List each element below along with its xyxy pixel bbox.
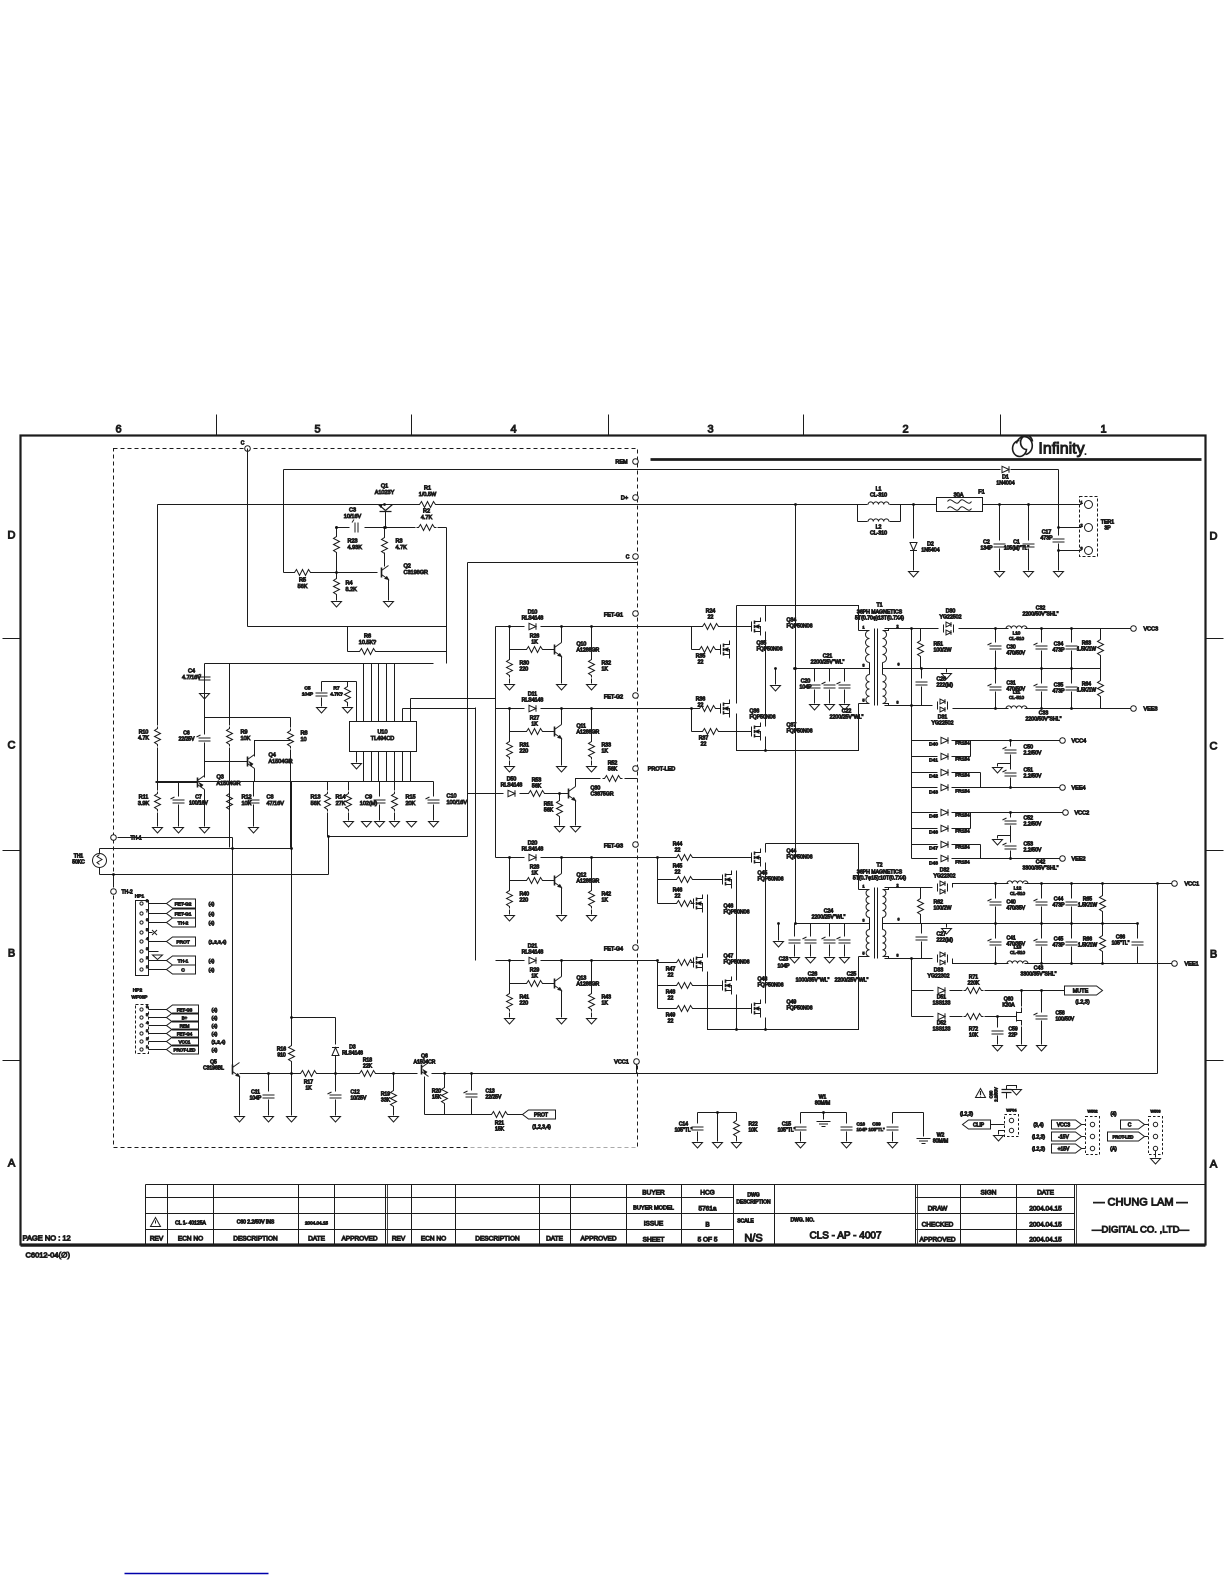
svg-text:1SS133: 1SS133 bbox=[933, 1027, 951, 1033]
capacitor C1 bbox=[1028, 505, 1030, 541]
wire y836 row bbox=[328, 836, 468, 838]
wire Q4 links bbox=[205, 761, 248, 763]
svg-text:RLS4148: RLS4148 bbox=[522, 698, 544, 704]
svg-text:VCC4: VCC4 bbox=[1072, 739, 1087, 745]
svg-text:REV: REV bbox=[150, 1236, 164, 1243]
svg-text:U10: U10 bbox=[377, 730, 387, 736]
wire Q12 emitter bbox=[561, 858, 563, 874]
svg-text:APPROVED: APPROVED bbox=[580, 1236, 616, 1243]
svg-text:3: 3 bbox=[146, 1029, 148, 1033]
svg-text:TH-1: TH-1 bbox=[178, 959, 189, 965]
svg-text:C21: C21 bbox=[823, 654, 833, 660]
fuse F1 bbox=[937, 498, 983, 512]
svg-text:A1288GR: A1288GR bbox=[577, 648, 600, 654]
svg-text:10K: 10K bbox=[969, 1033, 979, 1039]
svg-text:A1504GR: A1504GR bbox=[269, 759, 293, 765]
svg-text:B: B bbox=[1210, 949, 1217, 961]
wire Q1 box left bbox=[283, 470, 285, 573]
wire column R3 bbox=[384, 528, 386, 537]
capacitor C11 bbox=[268, 1074, 270, 1092]
svg-text:C22: C22 bbox=[842, 709, 852, 715]
svg-text:TL494CD: TL494CD bbox=[371, 736, 395, 742]
wire R4 column bbox=[336, 573, 338, 579]
wire driver feed B bbox=[475, 708, 477, 961]
svg-text:910: 910 bbox=[277, 1053, 286, 1059]
svg-text:4.7K: 4.7K bbox=[421, 515, 433, 521]
svg-text:FET-G4: FET-G4 bbox=[604, 947, 623, 953]
wire D45 feed bbox=[911, 788, 913, 859]
wire C-node row bbox=[468, 562, 638, 564]
arrow PROT-LED out bbox=[1108, 1132, 1145, 1141]
wire lower bus y781 bbox=[156, 781, 434, 783]
svg-text:4.7K?: 4.7K? bbox=[330, 691, 343, 697]
svg-text:4.7K: 4.7K bbox=[396, 545, 408, 551]
diode D41 bbox=[912, 756, 938, 758]
node REM bbox=[633, 459, 639, 465]
resistor R17 bbox=[299, 1071, 319, 1077]
resistor R43 bbox=[591, 961, 593, 992]
svg-text:134P: 134P bbox=[980, 546, 993, 552]
svg-text:R44: R44 bbox=[673, 842, 683, 848]
wire mute feeds bbox=[911, 959, 913, 1017]
ground under C5 bbox=[317, 708, 327, 714]
svg-text:TER1: TER1 bbox=[1101, 520, 1114, 526]
wire T2 mid right bbox=[885, 923, 1138, 925]
wire TH-1 row bbox=[118, 837, 233, 839]
capacitor C9 bbox=[379, 782, 381, 797]
svg-text:R29: R29 bbox=[530, 968, 540, 974]
pin HP1-5 no-connect bbox=[140, 931, 143, 934]
svg-text:1K: 1K bbox=[602, 898, 609, 904]
wire U10 to drivers bbox=[403, 699, 496, 709]
svg-text:56K: 56K bbox=[532, 784, 542, 790]
svg-text:-15V: -15V bbox=[1058, 1135, 1069, 1141]
svg-text:(L2,3): (L2,3) bbox=[1032, 1147, 1045, 1153]
ground VCC2 mid bbox=[998, 835, 1011, 837]
mute arrow bbox=[1065, 986, 1103, 995]
pin HP2 PROT-LED bbox=[140, 1048, 143, 1051]
svg-text:PROT-LED: PROT-LED bbox=[1113, 1135, 1134, 1140]
resistor R26 bbox=[510, 649, 525, 651]
mosfet Q47 bbox=[691, 954, 703, 972]
wire Q13 emitter bbox=[561, 961, 563, 977]
wire C4 lead bbox=[204, 664, 206, 673]
svg-text:VEE4: VEE4 bbox=[1072, 786, 1086, 792]
svg-text:C26: C26 bbox=[808, 972, 818, 978]
resistor R51 bbox=[559, 794, 561, 799]
svg-text:D2: D2 bbox=[927, 542, 934, 548]
svg-text:YG22502: YG22502 bbox=[940, 615, 962, 621]
diode D43 bbox=[912, 787, 938, 789]
svg-text:3300/35V"SHL": 3300/35V"SHL" bbox=[1021, 972, 1057, 978]
svg-text:5: 5 bbox=[314, 424, 320, 436]
capacitor C16 bbox=[846, 1113, 848, 1124]
wire bank2 inner verticals bbox=[736, 871, 738, 981]
capacitor C23 bbox=[794, 924, 796, 937]
svg-text:15K: 15K bbox=[432, 1095, 442, 1101]
wire x157 upper bbox=[157, 505, 159, 726]
svg-text:Q34: Q34 bbox=[787, 618, 797, 624]
capacitor C34 bbox=[1071, 629, 1073, 643]
svg-text:VEE1: VEE1 bbox=[1185, 962, 1199, 968]
resistor R8 bbox=[288, 729, 294, 749]
svg-text:RLS4148: RLS4148 bbox=[522, 950, 544, 956]
svg-text:8: 8 bbox=[897, 954, 899, 958]
svg-text:2200/25V"WL": 2200/25V"WL" bbox=[811, 660, 845, 666]
svg-text:27K: 27K bbox=[336, 801, 346, 807]
svg-text:C60 2.2/50V INS: C60 2.2/50V INS bbox=[237, 1220, 275, 1226]
node VCC1 mid bbox=[634, 1059, 640, 1065]
capacitor C10 bbox=[433, 782, 435, 797]
wire R7 column bbox=[347, 682, 349, 686]
capacitor C58 bbox=[1041, 991, 1043, 1013]
svg-text:D30: D30 bbox=[946, 609, 956, 615]
resistor R51B bbox=[920, 629, 922, 639]
diode D11 bbox=[529, 705, 536, 711]
svg-text:CL-510: CL-510 bbox=[1010, 950, 1026, 955]
wire R6 row bbox=[348, 651, 358, 653]
junctions VCC1 rails bbox=[994, 882, 997, 885]
transistor Q4 bbox=[248, 755, 255, 769]
svg-text:R47: R47 bbox=[666, 967, 676, 973]
resistor R48 bbox=[658, 985, 677, 987]
svg-text:FQP50N06: FQP50N06 bbox=[787, 729, 813, 735]
svg-text:D41: D41 bbox=[929, 758, 938, 764]
wire rail to fuse bbox=[901, 504, 937, 506]
pin HP1 C bbox=[140, 968, 143, 971]
resistor R31 bbox=[509, 709, 511, 740]
wire G1 to R24 bbox=[638, 626, 703, 628]
svg-text:(4): (4) bbox=[209, 921, 215, 927]
svg-text:222(M): 222(M) bbox=[937, 683, 954, 689]
svg-text:22P: 22P bbox=[1009, 1033, 1019, 1039]
svg-text:T2: T2 bbox=[876, 863, 882, 869]
svg-text:R1: R1 bbox=[424, 486, 431, 492]
wire Q10 emitter bbox=[561, 627, 563, 643]
diode D20 bbox=[529, 854, 536, 860]
wire x467 vertical bbox=[467, 563, 469, 772]
resistor R1 bbox=[418, 502, 438, 508]
svg-text:VCC3: VCC3 bbox=[1057, 1123, 1071, 1129]
svg-text:6: 6 bbox=[115, 424, 121, 436]
ground mid gnds bbox=[362, 822, 372, 828]
svg-text:6: 6 bbox=[146, 918, 148, 922]
svg-text:105(M)"TL": 105(M)"TL" bbox=[1004, 546, 1029, 552]
wire Q11 emitter bbox=[561, 709, 563, 725]
svg-text:D21: D21 bbox=[528, 944, 538, 950]
svg-text:R43: R43 bbox=[602, 995, 612, 1001]
svg-text:R35: R35 bbox=[696, 654, 706, 660]
capacitor C52 bbox=[1010, 813, 1012, 818]
resistor R29 bbox=[510, 983, 525, 985]
svg-text:3: 3 bbox=[863, 919, 865, 923]
wire TH1 bottom bbox=[99, 868, 101, 875]
wire Q60 drain bbox=[1021, 991, 1023, 1007]
node D+ bbox=[633, 495, 639, 501]
wire TER1 pin3 lead bbox=[1059, 550, 1082, 552]
wire R2 C3 row bbox=[337, 527, 350, 529]
svg-text:FR154: FR154 bbox=[955, 757, 970, 763]
capacitor C13 bbox=[471, 1074, 473, 1091]
svg-text:8: 8 bbox=[146, 899, 148, 903]
svg-text:2: 2 bbox=[897, 625, 899, 629]
wire rail after fuse bbox=[983, 504, 1082, 506]
svg-text:Q44: Q44 bbox=[787, 849, 797, 855]
svg-text:MUTE: MUTE bbox=[1073, 989, 1089, 995]
pin HP2 B+ bbox=[140, 1016, 143, 1019]
resistor R4 bbox=[334, 577, 340, 597]
wire VEE1 rail bbox=[953, 959, 1172, 964]
junctions row bbox=[508, 707, 511, 710]
svg-text:2: 2 bbox=[146, 1037, 148, 1041]
svg-text:1: 1 bbox=[146, 1045, 148, 1049]
resistor R36 bbox=[698, 706, 718, 712]
svg-text:Q13: Q13 bbox=[577, 976, 587, 982]
ground T1 mid bbox=[946, 669, 948, 673]
svg-text:104P: 104P bbox=[302, 691, 313, 697]
svg-text:2: 2 bbox=[897, 884, 899, 888]
svg-text:1: 1 bbox=[863, 885, 865, 889]
svg-text:3: 3 bbox=[863, 664, 865, 668]
wire bank1 source rail bbox=[737, 704, 859, 751]
svg-text:4.7/16V: 4.7/16V bbox=[182, 675, 201, 681]
svg-text:C3198GR: C3198GR bbox=[404, 570, 428, 576]
svg-text:2004.04.15: 2004.04.15 bbox=[1029, 1206, 1062, 1213]
junctions row bbox=[508, 856, 511, 859]
svg-text:D: D bbox=[1210, 531, 1218, 543]
svg-text:22/25V: 22/25V bbox=[179, 737, 196, 743]
capacitor C53 bbox=[1010, 836, 1012, 843]
svg-text:33K: 33K bbox=[381, 1098, 391, 1104]
svg-text:R33: R33 bbox=[602, 743, 612, 749]
wire G2 to R36 bbox=[638, 708, 700, 710]
wire bank2 source rail bbox=[708, 957, 859, 1030]
mosfet Q48 bbox=[720, 977, 732, 995]
svg-text:3300/35V"SHL": 3300/35V"SHL" bbox=[1023, 866, 1059, 872]
svg-text:Q10: Q10 bbox=[577, 642, 587, 648]
svg-text:1K: 1K bbox=[531, 722, 538, 728]
svg-text:10K: 10K bbox=[242, 801, 252, 807]
resistor R33 bbox=[591, 709, 593, 740]
svg-text:DWG: DWG bbox=[747, 1193, 759, 1199]
svg-text:Q4: Q4 bbox=[269, 753, 276, 759]
svg-text:473P: 473P bbox=[1052, 903, 1065, 909]
wire driver feed A bbox=[495, 627, 497, 858]
svg-text:A: A bbox=[1210, 1159, 1218, 1171]
svg-text:PROT-LED: PROT-LED bbox=[174, 1048, 196, 1053]
svg-text:2200/25V"WL": 2200/25V"WL" bbox=[835, 978, 869, 984]
terminal VCC4 bbox=[1060, 738, 1066, 744]
mosfet Q44 bbox=[749, 849, 761, 867]
svg-text:R30: R30 bbox=[520, 661, 530, 667]
wire D40 feed bbox=[911, 629, 913, 788]
capacitor C44 bbox=[1071, 884, 1073, 899]
resistor R7 bbox=[345, 685, 351, 705]
svg-text:C39: C39 bbox=[872, 1122, 881, 1127]
svg-text:2004.04.15: 2004.04.15 bbox=[1029, 1237, 1062, 1244]
svg-text:50KC: 50KC bbox=[72, 860, 85, 866]
svg-text:22: 22 bbox=[675, 894, 681, 900]
arrow PROT bbox=[523, 1110, 556, 1119]
dual diode D31 bbox=[940, 699, 945, 704]
svg-text:D: D bbox=[8, 530, 16, 542]
wire Q5 emitter gnd bbox=[239, 1077, 241, 1116]
svg-text:5: 5 bbox=[146, 1013, 148, 1017]
svg-text:CL-510: CL-510 bbox=[1010, 891, 1026, 896]
svg-text:FET-G4: FET-G4 bbox=[177, 1032, 193, 1037]
svg-text:1SS133: 1SS133 bbox=[933, 1001, 951, 1007]
blue underline mark bbox=[125, 1573, 269, 1575]
svg-text:WF08P: WF08P bbox=[132, 995, 148, 1001]
wire Q3 box top bbox=[205, 717, 291, 719]
svg-text:8.2K: 8.2K bbox=[346, 587, 358, 593]
thermistor TH1 bbox=[93, 854, 107, 868]
pin HP1 FET-G2 bbox=[140, 902, 143, 905]
terminal VEE3 bbox=[1131, 706, 1137, 712]
capacitor C5 bbox=[316, 693, 328, 696]
svg-text:(A): (A) bbox=[1110, 1147, 1117, 1153]
svg-text:WF04: WF04 bbox=[1006, 1109, 1016, 1113]
svg-text:100/16V: 100/16V bbox=[447, 800, 468, 806]
capacitor C12 bbox=[335, 1074, 337, 1092]
svg-text:R36: R36 bbox=[696, 697, 706, 703]
wire T1 mid right bbox=[885, 668, 1101, 670]
capacitor C24 bbox=[810, 924, 812, 937]
svg-text:B: B bbox=[8, 948, 15, 960]
resistor R49 bbox=[658, 1008, 677, 1010]
svg-text:D33: D33 bbox=[934, 968, 944, 974]
svg-text:(4): (4) bbox=[212, 1024, 218, 1030]
svg-text:TH-2: TH-2 bbox=[122, 890, 133, 896]
svg-text:22/25V: 22/25V bbox=[486, 1095, 503, 1101]
diode D2 bbox=[910, 543, 917, 551]
svg-text:2004.04.15: 2004.04.15 bbox=[305, 1221, 328, 1226]
svg-text:4: 4 bbox=[510, 424, 516, 436]
resistor R16 bbox=[289, 1044, 295, 1064]
svg-text:100/16V: 100/16V bbox=[189, 801, 208, 807]
svg-text:A1288GR: A1288GR bbox=[577, 982, 600, 988]
svg-text:T1: T1 bbox=[876, 603, 882, 609]
svg-text:FET-G1: FET-G1 bbox=[175, 912, 192, 918]
svg-text:PROT: PROT bbox=[534, 1113, 548, 1119]
svg-text:R32: R32 bbox=[602, 661, 612, 667]
transistor Q10 bbox=[555, 643, 562, 657]
wire REM rail bbox=[284, 469, 1001, 471]
svg-text:1000/35V"WL": 1000/35V"WL" bbox=[796, 978, 830, 984]
svg-text:6: 6 bbox=[146, 1005, 148, 1009]
transistor Q30 bbox=[569, 787, 576, 801]
svg-text:FQP50N06: FQP50N06 bbox=[787, 624, 813, 630]
svg-text:220K: 220K bbox=[968, 981, 980, 987]
svg-text:5: 5 bbox=[146, 928, 148, 932]
svg-text:4: 4 bbox=[146, 1021, 148, 1025]
transistor Q11 bbox=[555, 725, 562, 739]
svg-text:(1,2,3,4): (1,2,3,4) bbox=[532, 1125, 551, 1131]
resistor R65 bbox=[1102, 884, 1104, 894]
svg-text:C2: C2 bbox=[983, 540, 990, 546]
capacitor C43b bbox=[1041, 924, 1043, 939]
svg-text:R8: R8 bbox=[301, 731, 308, 737]
svg-text:(L2,3): (L2,3) bbox=[1075, 1000, 1090, 1006]
arrow CLIP bbox=[963, 1120, 991, 1129]
svg-text:VCC1: VCC1 bbox=[614, 1060, 629, 1066]
svg-text:C4: C4 bbox=[188, 669, 195, 675]
svg-text:FQP50N06: FQP50N06 bbox=[758, 877, 784, 883]
svg-text:D45: D45 bbox=[929, 814, 938, 820]
ground VCC4 mid bbox=[998, 763, 1011, 765]
svg-text:R23: R23 bbox=[348, 539, 358, 545]
pin HP2 REM bbox=[140, 1024, 143, 1027]
svg-text:D31: D31 bbox=[938, 715, 948, 721]
svg-text:FQP50N06: FQP50N06 bbox=[750, 715, 776, 721]
diode D10 bbox=[529, 623, 536, 629]
capacitor C33b bbox=[1041, 669, 1043, 684]
wire Q30 collector bbox=[576, 779, 601, 787]
svg-text:YG22302: YG22302 bbox=[934, 874, 956, 880]
svg-text:2200/50V"SHL": 2200/50V"SHL" bbox=[1026, 717, 1062, 723]
svg-text:104P: 104P bbox=[250, 1096, 262, 1102]
svg-text:R15: R15 bbox=[406, 795, 416, 801]
svg-text:FET-G1: FET-G1 bbox=[604, 613, 623, 619]
resistor R28 bbox=[510, 880, 525, 882]
diode D52 bbox=[912, 1016, 934, 1018]
svg-text:4.7K: 4.7K bbox=[138, 736, 149, 742]
wire B+ rail bbox=[158, 504, 418, 506]
svg-text:8: 8 bbox=[897, 701, 899, 705]
pin HP2 FET-G3 bbox=[140, 1008, 143, 1011]
junction dots input bbox=[912, 503, 915, 506]
transistor Q12 bbox=[555, 874, 562, 888]
svg-text:22: 22 bbox=[668, 996, 674, 1002]
connector W503 bbox=[1149, 1117, 1163, 1155]
svg-text:1: 1 bbox=[1100, 424, 1106, 436]
svg-text:C50: C50 bbox=[1024, 745, 1034, 751]
resistor R14 bbox=[348, 782, 350, 791]
svg-text:D42: D42 bbox=[929, 774, 938, 780]
svg-text:D20: D20 bbox=[528, 841, 538, 847]
resistor R42 bbox=[591, 858, 593, 889]
resistor R12 bbox=[227, 792, 233, 812]
wire x446 vertical bbox=[446, 528, 448, 664]
wire VCC1 bus drop bbox=[1157, 884, 1159, 1074]
wire C14 mid gnd bbox=[717, 1113, 719, 1142]
connector TER1 bbox=[1080, 497, 1098, 557]
wire U10 bottom pins bbox=[364, 752, 411, 782]
svg-text:1.5K/1W: 1.5K/1W bbox=[1078, 903, 1097, 909]
svg-text:PAGE NO : 12: PAGE NO : 12 bbox=[23, 1234, 71, 1243]
title bottom thick border bbox=[21, 1244, 1206, 1247]
wire Q60 source bbox=[1021, 1027, 1023, 1045]
svg-text:+15V: +15V bbox=[1058, 1147, 1070, 1153]
svg-text:HP2: HP2 bbox=[133, 988, 143, 994]
node TH-1 bbox=[111, 835, 117, 841]
svg-text:2: 2 bbox=[902, 424, 908, 436]
svg-text:VCC2: VCC2 bbox=[1075, 811, 1090, 817]
wire R5 row bbox=[284, 572, 293, 574]
transistor Q6 bbox=[422, 1063, 429, 1077]
svg-text:100/2W: 100/2W bbox=[934, 648, 952, 654]
wire B+ drop bbox=[795, 505, 797, 924]
capacitor C28 bbox=[921, 669, 923, 679]
svg-text:22K: 22K bbox=[363, 1064, 373, 1070]
svg-text:30A: 30A bbox=[954, 493, 964, 499]
svg-text:100/50V: 100/50V bbox=[1056, 1017, 1075, 1023]
svg-text:D46: D46 bbox=[929, 830, 938, 836]
capacitor C20 bbox=[814, 669, 816, 682]
svg-text:R52: R52 bbox=[608, 761, 618, 767]
svg-text:YG22302: YG22302 bbox=[928, 974, 950, 980]
capacitor C41 bbox=[995, 924, 997, 939]
